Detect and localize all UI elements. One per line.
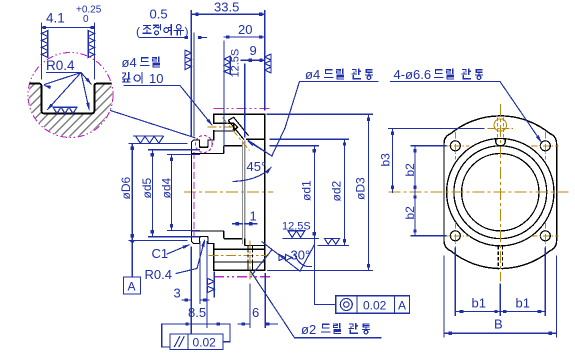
svg-text:b2: b2	[403, 163, 417, 177]
detail indicator circle on part (magenta)	[195, 136, 212, 153]
center lines (gold)	[389, 191, 571, 193]
svg-text:B: B	[494, 317, 503, 332]
hidden o2 hole (dashed black)	[498, 246, 502, 269]
svg-text:ød4: ød4	[159, 177, 173, 198]
bore circles	[447, 139, 554, 246]
o2 drill through leader + label	[251, 272, 381, 338]
o2 radial hole (bottom flange)	[248, 245, 252, 270]
marks above d2 ext	[324, 238, 339, 244]
svg-text:4-ø6.6: 4-ø6.6	[394, 67, 432, 82]
phantom line top (magenta)	[214, 108, 271, 110]
svg-text:1: 1	[250, 209, 257, 224]
o2 hole centerline (gold)	[249, 241, 251, 282]
svg-text:(: (	[136, 25, 140, 39]
finish stack on right ext	[265, 54, 271, 73]
leader: 4-o6.6 drill through	[379, 67, 557, 337]
svg-text:R0.4: R0.4	[145, 267, 172, 282]
svg-text:R0.4: R0.4	[46, 58, 75, 73]
concentricity frame	[336, 296, 410, 314]
dim b3	[389, 127, 485, 129]
datum A box	[124, 277, 141, 294]
45-degree hole centerline (gold)	[223, 118, 250, 151]
dimension 4.1 +0.25/0	[42, 23, 95, 79]
leader from detail circle to actual groove	[111, 111, 196, 138]
hatched material of detail section	[24, 84, 117, 141]
finish marks on groove floor	[53, 107, 77, 113]
bore d4 lines	[192, 154, 224, 231]
dim od2	[270, 138, 349, 140]
svg-text:øD3: øD3	[354, 177, 368, 200]
svg-text:A: A	[128, 280, 136, 294]
part outline (black)	[192, 114, 265, 270]
phantom line bottom (magenta)	[214, 276, 271, 278]
finish triangle stacks on extension lines	[42, 31, 48, 58]
parallelism frame	[162, 324, 230, 347]
adjusted-face phantom vertical (magenta)	[193, 152, 195, 236]
45-degree through hole walls	[228, 117, 248, 139]
finish stack on left ext	[185, 50, 191, 69]
finish stack under flange face	[213, 272, 215, 297]
extension lines of 0.5	[191, 11, 194, 137]
groove profile (black)	[30, 84, 112, 114]
svg-text:4.1: 4.1	[46, 11, 65, 26]
svg-text:ød1: ød1	[300, 180, 314, 201]
svg-text:C1: C1	[152, 246, 169, 261]
internal 1mm groove (gray)	[242, 141, 244, 244]
svg-text:6: 6	[252, 305, 259, 320]
svg-text:b1: b1	[516, 296, 530, 311]
svg-text:33.5: 33.5	[214, 0, 239, 15]
svg-text:ød2: ød2	[330, 180, 344, 201]
o4 hole centerline (gold)	[208, 126, 237, 128]
bore step faces at x=223.8	[223, 146, 225, 239]
bolt holes	[450, 141, 460, 151]
dim b2 x2	[411, 146, 446, 236]
svg-text:30°: 30°	[291, 248, 311, 263]
svg-text:b2: b2	[403, 206, 417, 220]
top o4 drill hole on bolt circle (gold)	[487, 118, 513, 140]
svg-text:ø4: ø4	[305, 67, 320, 82]
svg-text:ø2: ø2	[301, 322, 316, 337]
main centerline (gold)	[184, 191, 274, 193]
svg-text:øD6: øD6	[119, 177, 133, 200]
detail boundary circle (phantom magenta)	[28, 53, 113, 138]
left side dims: oD6 d5 d4	[129, 144, 187, 241]
o4 drill depth-10 hole (top)	[213, 124, 215, 130]
bolt hole centerline (gold)	[209, 255, 269, 257]
bore d1 lines	[224, 146, 243, 239]
svg-text:10: 10	[149, 71, 163, 86]
dim oD3	[267, 114, 373, 270]
svg-text:ø4: ø4	[122, 55, 137, 70]
finish mark above flange left	[134, 136, 164, 143]
svg-text:+0.25: +0.25	[76, 5, 102, 16]
svg-text:0: 0	[83, 14, 89, 25]
svg-text:8.5: 8.5	[188, 305, 206, 320]
svg-text:9: 9	[250, 43, 257, 58]
o4 hole break-through notch (black U)	[496, 139, 506, 146]
bolt hole crosshairs (gold)	[442, 132, 559, 250]
svg-text:3: 3	[174, 286, 181, 301]
dim od1	[270, 145, 319, 147]
svg-text:b3: b3	[379, 153, 393, 167]
svg-text:A: A	[398, 299, 406, 313]
svg-text:45°: 45°	[247, 159, 267, 174]
svg-text:b1: b1	[472, 296, 486, 311]
svg-text:0.5: 0.5	[150, 7, 168, 22]
svg-text:0.02: 0.02	[363, 299, 387, 313]
dim b1 b1	[455, 248, 545, 316]
flange outline	[444, 116, 557, 269]
R0.4 arrows to corners	[42, 73, 93, 112]
bolt hole in bottom flange half (black)	[214, 249, 265, 262]
svg-text:0.02: 0.02	[193, 336, 217, 350]
svg-text:20: 20	[238, 22, 252, 37]
svg-text:ød5: ød5	[140, 177, 154, 198]
bore d2 lines	[245, 139, 265, 245]
dim B	[444, 256, 557, 337]
svg-text:12.5S: 12.5S	[229, 49, 241, 78]
